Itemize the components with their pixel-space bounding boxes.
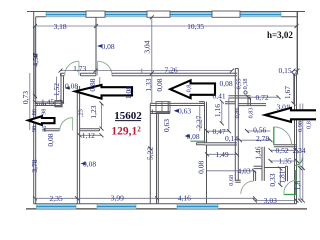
svg-text:4,56: 4,56 <box>31 53 40 66</box>
svg-text:0,72: 0,72 <box>255 93 268 102</box>
svg-text:1,46: 1,46 <box>253 146 262 159</box>
svg-text:86: 86 <box>31 109 38 115</box>
svg-text:98: 98 <box>31 126 38 132</box>
svg-text:0,47: 0,47 <box>212 127 225 136</box>
svg-text:0,08: 0,08 <box>46 133 55 146</box>
svg-text:0,63: 0,63 <box>162 119 171 132</box>
svg-text:1,16: 1,16 <box>213 104 222 117</box>
svg-text:1,45: 1,45 <box>41 98 54 107</box>
svg-text:10,35: 10,35 <box>187 22 204 31</box>
svg-text:1,73: 1,73 <box>73 64 86 73</box>
svg-text:3,01: 3,01 <box>276 103 289 112</box>
svg-text:0,33: 0,33 <box>268 173 277 186</box>
svg-text:3,18: 3,18 <box>53 22 66 31</box>
svg-text:0,08: 0,08 <box>219 79 232 88</box>
svg-text:1,08: 1,08 <box>124 86 133 99</box>
svg-text:3,04: 3,04 <box>143 40 152 53</box>
svg-text:86: 86 <box>41 126 48 132</box>
svg-text:2,78: 2,78 <box>256 134 269 143</box>
svg-text:98: 98 <box>41 109 48 115</box>
svg-text:0,52: 0,52 <box>275 146 288 155</box>
svg-text:0,86: 0,86 <box>234 108 241 119</box>
svg-text:0,8: 0,8 <box>306 121 313 129</box>
svg-text:,23: ,23 <box>77 109 84 117</box>
svg-text:0,15: 0,15 <box>278 66 291 75</box>
svg-text:5,22: 5,22 <box>146 147 155 160</box>
svg-text:2,34: 2,34 <box>292 146 305 155</box>
svg-text:0,08: 0,08 <box>196 160 205 173</box>
svg-text:h=3,02: h=3,02 <box>267 30 293 40</box>
svg-text:4,16: 4,16 <box>178 193 191 202</box>
svg-text:0,14: 0,14 <box>225 134 238 143</box>
svg-text:0,08: 0,08 <box>65 82 78 91</box>
svg-text:1,52: 1,52 <box>52 83 61 96</box>
svg-text:0,8: 0,8 <box>186 85 193 93</box>
svg-text:1,33: 1,33 <box>144 78 153 91</box>
svg-text:3,03: 3,03 <box>264 196 277 205</box>
svg-text:0,08: 0,08 <box>101 42 114 51</box>
svg-text:0,98: 0,98 <box>297 121 304 132</box>
svg-text:1,35: 1,35 <box>278 157 291 166</box>
svg-text:1,67: 1,67 <box>283 86 292 99</box>
svg-text:7,26: 7,26 <box>164 66 177 75</box>
svg-text:4,03: 4,03 <box>237 166 250 175</box>
svg-text:1,8: 1,8 <box>293 181 302 191</box>
svg-text:3,99: 3,99 <box>111 193 124 202</box>
svg-text:0,63: 0,63 <box>178 107 191 116</box>
svg-text:1,81: 1,81 <box>277 170 286 183</box>
svg-text:3,78: 3,78 <box>30 159 39 172</box>
svg-text:1,49: 1,49 <box>215 150 228 159</box>
svg-text:15602: 15602 <box>114 110 142 122</box>
svg-text:129,12: 129,12 <box>111 126 141 138</box>
svg-text:0,73: 0,73 <box>21 91 30 104</box>
svg-text:2,35: 2,35 <box>49 194 62 203</box>
svg-text:0,38: 0,38 <box>242 79 249 90</box>
svg-text:1,12: 1,12 <box>82 131 95 140</box>
svg-text:2,27: 2,27 <box>194 115 203 128</box>
svg-text:0,68: 0,68 <box>228 175 235 186</box>
svg-text:0,83: 0,83 <box>248 108 255 119</box>
svg-text:1,23: 1,23 <box>89 105 98 118</box>
svg-text:0,88: 0,88 <box>88 78 97 91</box>
svg-text:0,41: 0,41 <box>212 92 225 101</box>
svg-text:0,08: 0,08 <box>155 78 164 91</box>
